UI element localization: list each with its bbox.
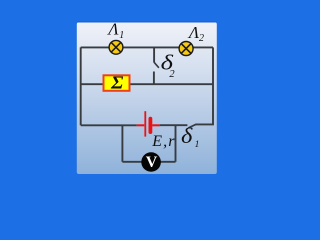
svg-text:1: 1 [195,140,200,150]
svg-text:δ: δ [181,123,193,148]
svg-text:Σ: Σ [110,73,123,93]
svg-text:Λ: Λ [106,20,119,39]
svg-text:1: 1 [119,30,124,41]
svg-text:Λ: Λ [187,23,200,42]
svg-text:2: 2 [199,33,204,44]
svg-text:2: 2 [169,69,175,80]
svg-text:V: V [146,154,158,171]
svg-text:E,r: E,r [151,133,175,150]
